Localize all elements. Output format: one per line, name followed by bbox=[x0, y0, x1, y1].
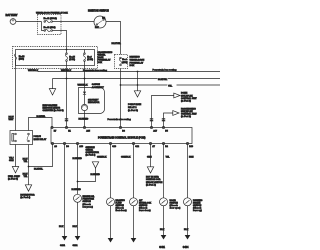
svg-text:ORN/BLK: ORN/BLK bbox=[121, 157, 131, 159]
fuse No.42 (40A) bbox=[44, 26, 56, 31]
svg-text:BLK: BLK bbox=[160, 229, 165, 231]
svg-text:(7.5A): (7.5A) bbox=[87, 58, 93, 61]
wire relay coil to PCM top pin bbox=[29, 118, 53, 131]
ignition switch bbox=[88, 10, 109, 30]
svg-text:GRN: GRN bbox=[147, 157, 152, 159]
svg-text:YEL: YEL bbox=[168, 86, 173, 88]
svg-text:IGNITION SWITCH: IGNITION SWITCH bbox=[88, 10, 109, 13]
svg-text:low press): low press) bbox=[83, 205, 94, 208]
svg-text:(7.5A): (7.5A) bbox=[69, 58, 75, 61]
svg-text:WHT/BLK: WHT/BLK bbox=[78, 84, 89, 86]
node line B bbox=[53, 78, 221, 89]
svg-text:BRAKE: BRAKE bbox=[193, 201, 201, 204]
svg-text:POWERTRAIN CONTROL MODULE (PCM: POWERTRAIN CONTROL MODULE (PCM) bbox=[98, 137, 146, 140]
svg-text:Powertrain bus routing: Powertrain bus routing bbox=[153, 69, 178, 72]
security indicator lamp bbox=[81, 99, 99, 113]
svg-text:BATTERY: BATTERY bbox=[6, 13, 18, 17]
svg-text:BLK/YEL: BLK/YEL bbox=[37, 116, 47, 118]
svg-text:PGM-FI MAIN: PGM-FI MAIN bbox=[128, 103, 142, 106]
svg-text:(In Fuel 3): (In Fuel 3) bbox=[128, 110, 138, 112]
wire battery to under-hood fuse box bbox=[16, 21, 42, 23]
connector arrow to EVAP bbox=[43, 89, 64, 113]
svg-text:WHT/BLK: WHT/BLK bbox=[61, 70, 72, 72]
switch circle 3 bbox=[159, 144, 180, 249]
svg-text:lever up): lever up) bbox=[193, 209, 202, 212]
svg-text:(In Fuel 2): (In Fuel 2) bbox=[181, 116, 191, 118]
svg-text:INDICATOR: INDICATOR bbox=[88, 101, 100, 104]
junction fuse42 wire on box top bbox=[66, 49, 68, 51]
svg-text:No.41 (100A): No.41 (100A) bbox=[44, 17, 58, 20]
arrow to passenger's multiplex control unit bbox=[162, 107, 198, 127]
wire driver's fuse to PCM bbox=[120, 69, 122, 128]
svg-text:BLK: BLK bbox=[184, 229, 189, 231]
svg-text:(15A): (15A) bbox=[122, 61, 127, 64]
hot in run arrow bbox=[146, 144, 163, 187]
svg-text:(In Fuel 3): (In Fuel 3) bbox=[8, 179, 18, 181]
fuse No.15 (7.5A) bbox=[65, 53, 75, 62]
svg-text:G401: G401 bbox=[159, 246, 165, 249]
node line C bbox=[120, 84, 220, 88]
svg-text:CANISTER (In Fuel 3): CANISTER (In Fuel 3) bbox=[43, 109, 64, 112]
svg-text:GRN: GRN bbox=[9, 160, 14, 162]
wire relay to fuel pump connector bbox=[8, 145, 21, 181]
svg-text:BLU/RED: BLU/RED bbox=[73, 158, 83, 160]
svg-text:GAUGE: GAUGE bbox=[92, 83, 101, 86]
svg-text:FUSE/RELAY: FUSE/RELAY bbox=[130, 61, 144, 64]
battery B1 bbox=[6, 13, 18, 24]
ground G101 second bbox=[75, 236, 81, 241]
svg-text:DRIVER'S: DRIVER'S bbox=[130, 57, 141, 59]
svg-text:ORN/BLK: ORN/BLK bbox=[97, 157, 107, 159]
svg-text:BLK/YEL: BLK/YEL bbox=[112, 43, 122, 45]
svg-text:BLU/RED: BLU/RED bbox=[72, 189, 82, 191]
PGM-FI main relay 1 bbox=[10, 131, 47, 145]
svg-text:BRN: BRN bbox=[189, 157, 194, 159]
svg-text:BLU/RED: BLU/RED bbox=[91, 174, 101, 176]
svg-text:PARKING: PARKING bbox=[193, 199, 203, 202]
wire branch with connector to PGM-FI sub relay bbox=[128, 71, 142, 112]
wire PCM A6 elbow to relay wire bbox=[29, 144, 53, 167]
wire PCM B9 to ground bbox=[64, 144, 66, 237]
under-hood fuse/relay box bbox=[36, 12, 68, 35]
svg-text:BOX: BOX bbox=[130, 65, 135, 67]
svg-text:PASSENGER'S: PASSENGER'S bbox=[181, 107, 196, 110]
svg-text:G101: G101 bbox=[60, 245, 66, 247]
svg-text:UNDER-DASH: UNDER-DASH bbox=[130, 58, 145, 61]
svg-text:IG1: IG1 bbox=[102, 17, 105, 19]
svg-text:door open): door open) bbox=[170, 207, 181, 210]
fuse No.41 (100A) bbox=[44, 17, 58, 23]
wire ignition switch to driver's box bbox=[106, 22, 121, 55]
wire fuse42 down to passenger box bbox=[53, 31, 67, 50]
PCM top pins bbox=[51, 126, 169, 132]
wire gauge to PCM bbox=[84, 114, 86, 128]
wire fuse41 to ignition switch bbox=[53, 21, 95, 23]
svg-text:(In Fuel 4): (In Fuel 4) bbox=[20, 196, 30, 199]
wire fuse9 inside box bbox=[84, 50, 86, 66]
ground G101 bbox=[62, 236, 68, 241]
svg-text:float down): float down) bbox=[116, 209, 127, 212]
svg-text:UNDER-HOOD FUSE/RELAY BOX: UNDER-HOOD FUSE/RELAY BOX bbox=[36, 12, 68, 15]
svg-text:lever down): lever down) bbox=[139, 209, 151, 212]
svg-text:EMISSION (EVAP): EMISSION (EVAP) bbox=[43, 107, 61, 110]
svg-text:RELAY 2: RELAY 2 bbox=[128, 106, 137, 109]
PCM box bbox=[51, 128, 192, 144]
svg-text:BLK: BLK bbox=[73, 226, 78, 228]
wire fuse9 to gauge assembly bbox=[84, 66, 86, 88]
svg-text:BLK/YEL: BLK/YEL bbox=[34, 168, 44, 170]
diode D1 bbox=[83, 88, 86, 105]
node line A with labels bbox=[28, 69, 220, 72]
svg-text:(In Fuel 2): (In Fuel 2) bbox=[181, 101, 191, 103]
wire fuse15 to PCM bbox=[66, 66, 68, 128]
gauge assembly box bbox=[79, 83, 105, 113]
svg-text:WHT: WHT bbox=[9, 119, 15, 121]
switch circle 1 bbox=[97, 144, 127, 243]
fuse No.9 (7.5A) bbox=[83, 53, 93, 62]
passenger's under-dash fuse/relay box bbox=[13, 47, 113, 69]
wire relay to distributor bbox=[20, 145, 35, 200]
svg-text:(In Fuel 2): (In Fuel 2) bbox=[86, 155, 96, 157]
arrow to multiplex control unit bbox=[150, 93, 198, 128]
switch circle 2 bbox=[121, 144, 152, 243]
svg-text:G101: G101 bbox=[73, 245, 79, 247]
svg-text:MAIN RELAY: MAIN RELAY bbox=[34, 138, 47, 141]
wire fuse15 inside box bbox=[66, 50, 68, 66]
svg-text:BLK: BLK bbox=[59, 226, 64, 228]
svg-text:(In Fuel 4): (In Fuel 4) bbox=[146, 183, 156, 186]
svg-text:No.42 (40A): No.42 (40A) bbox=[44, 26, 56, 29]
svg-text:(15A): (15A) bbox=[19, 57, 25, 60]
svg-text:Powertrain bus routing: Powertrain bus routing bbox=[83, 69, 108, 72]
svg-text:BLU/RED: BLU/RED bbox=[79, 119, 89, 121]
driver's under-dash fuse/relay box bbox=[115, 55, 145, 69]
svg-text:G404: G404 bbox=[183, 246, 189, 249]
fuse No.32 (15A) left edge bbox=[14, 54, 25, 61]
switch circle 4 bbox=[183, 144, 203, 249]
svg-text:Powertrain wire routing: Powertrain wire routing bbox=[108, 118, 132, 121]
PCM bottom pins bbox=[51, 142, 193, 147]
wire left fuse down to relay bbox=[15, 60, 17, 131]
svg-text:EVAPORATIVE: EVAPORATIVE bbox=[43, 104, 58, 107]
service check connector branch bbox=[73, 144, 101, 183]
svg-text:BLK/YEL: BLK/YEL bbox=[158, 79, 168, 81]
wire fuse bus vertical inside under-hood box bbox=[42, 22, 44, 31]
svg-text:WHT/BLK: WHT/BLK bbox=[28, 70, 39, 72]
svg-text:BOX: BOX bbox=[98, 62, 103, 64]
oil pressure switch bbox=[72, 182, 96, 237]
svg-text:BRAKE'S: BRAKE'S bbox=[116, 199, 126, 202]
